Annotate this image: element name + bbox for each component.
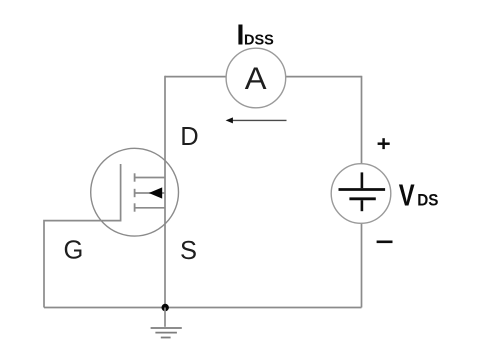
voltage source V1 circle bbox=[331, 164, 391, 224]
ground bar 2 bbox=[155, 332, 177, 334]
wire right vertical lower (VDS source minus terminal to bottom) bbox=[361, 223, 363, 307]
ground bar 1 bbox=[151, 327, 182, 329]
wire bottom horizontal bbox=[44, 307, 362, 309]
voltage source V1 bottom lead bbox=[361, 200, 364, 211]
current direction arrow line bbox=[232, 119, 287, 121]
plus sign bbox=[378, 138, 390, 149]
ground bar 3 bbox=[161, 337, 171, 339]
ground stem bbox=[164, 308, 166, 327]
svg-text:A: A bbox=[245, 60, 268, 96]
transistor Q1 channel segment upper bbox=[134, 173, 136, 181]
transistor Q1 channel segment lower bbox=[134, 203, 136, 211]
svg-text:G: G bbox=[64, 237, 84, 265]
transistor Q1 body stub bbox=[135, 192, 165, 194]
svg-text:V: V bbox=[399, 179, 415, 212]
svg-text:DSS: DSS bbox=[244, 31, 274, 48]
svg-text:S: S bbox=[180, 237, 197, 265]
voltage source V1 top lead bbox=[361, 172, 364, 188]
wire gate lead (gate bar down and left to bottom wire) bbox=[44, 164, 121, 308]
junction node dot bbox=[162, 304, 169, 311]
minus sign bbox=[377, 241, 393, 244]
voltage source V1 short plate bbox=[349, 197, 375, 200]
current direction arrow head bbox=[226, 117, 233, 123]
wire right vertical upper (to VDS source plus terminal) bbox=[361, 76, 363, 164]
svg-text:D: D bbox=[180, 123, 198, 151]
label IDSS bbox=[237, 19, 274, 51]
svg-text:DS: DS bbox=[417, 190, 438, 209]
transistor Q1 body arrow bbox=[149, 187, 162, 198]
transistor Q1 source stub bbox=[135, 207, 165, 209]
transistor Q1 MOSFET body circle bbox=[91, 148, 179, 236]
wire top-left horizontal (drain node to ammeter) bbox=[165, 76, 226, 78]
wire left vertical (drain-source channel wire D to S) bbox=[164, 76, 166, 308]
wire top-right horizontal (ammeter to VDS source) bbox=[286, 76, 362, 78]
transistor Q1 channel segment middle bbox=[134, 189, 136, 197]
label VDS bbox=[399, 179, 439, 212]
transistor Q1 drain stub bbox=[135, 177, 165, 179]
voltage source V1 long plate bbox=[339, 188, 386, 191]
ammeter U1 circle bbox=[226, 48, 286, 108]
